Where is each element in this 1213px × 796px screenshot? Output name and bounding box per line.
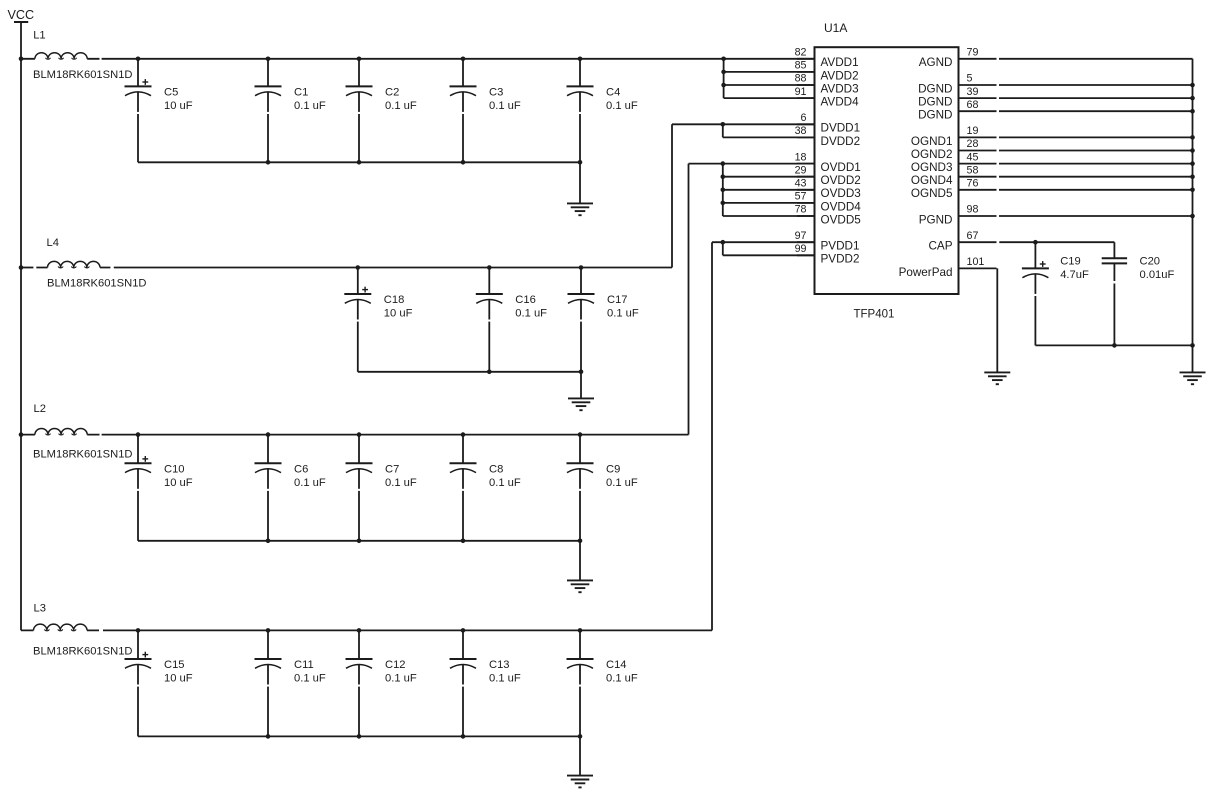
svg-text:97: 97 <box>795 230 807 242</box>
svg-text:43: 43 <box>795 178 807 190</box>
wire GND pin row 7 to rail <box>999 150 1193 152</box>
label C12 0.1 uF <box>385 659 417 685</box>
capacitor C8 <box>450 435 477 541</box>
wire to OVDD pin row 11 <box>723 202 815 204</box>
capacitor C15 <box>125 630 152 736</box>
pin 5 DGND <box>918 73 996 96</box>
svg-text:0.01uF: 0.01uF <box>1140 269 1175 281</box>
wire CAP pin net <box>999 241 1114 243</box>
svg-text:58: 58 <box>967 164 979 176</box>
svg-text:AVDD4: AVDD4 <box>821 96 860 109</box>
wire L2 bank ground bus <box>138 540 580 542</box>
op-amp/IC U1A TFP401 body <box>815 47 959 294</box>
svg-text:C1: C1 <box>294 86 308 98</box>
svg-text:L1: L1 <box>33 29 45 41</box>
svg-text:C17: C17 <box>607 294 628 306</box>
junction ground rail <box>1190 109 1195 114</box>
svg-text:C16: C16 <box>515 294 536 306</box>
junction OVDD branch <box>721 174 726 179</box>
svg-text:BLM18RK601SN1D: BLM18RK601SN1D <box>33 69 133 81</box>
junction node C12 bottom <box>357 734 362 739</box>
pin 67 CAP <box>928 230 996 253</box>
junction ground rail <box>1190 188 1195 193</box>
label C2 0.1 uF <box>385 86 417 112</box>
junction PVDD branch <box>721 240 726 245</box>
svg-text:0.1 uF: 0.1 uF <box>385 673 417 685</box>
capacitor C18 <box>344 268 371 372</box>
junction node C18 top <box>356 265 361 270</box>
wire CAP net ground bus <box>1035 344 1192 346</box>
junction on VCC rail <box>19 57 24 62</box>
svg-text:101: 101 <box>967 256 985 268</box>
svg-text:DGND: DGND <box>918 96 952 109</box>
junction node C17 top <box>579 265 584 270</box>
svg-text:DVDD2: DVDD2 <box>821 135 861 148</box>
svg-text:OVDD3: OVDD3 <box>821 187 861 200</box>
svg-text:10 uF: 10 uF <box>164 100 193 112</box>
capacitor C13 <box>450 630 477 736</box>
svg-text:C3: C3 <box>489 86 503 98</box>
pin 18 OVDD1 <box>795 151 861 174</box>
ground L4 bank <box>568 372 594 410</box>
svg-text:DGND: DGND <box>918 82 952 95</box>
wire PowerPad to ground <box>996 268 998 372</box>
svg-text:67: 67 <box>967 230 979 242</box>
wire to OVDD1 pin <box>689 163 815 165</box>
label C16 0.1 uF <box>515 294 547 320</box>
inductor L4 <box>47 237 101 270</box>
wire to AVDD3 pin <box>724 84 815 86</box>
svg-text:PVDD1: PVDD1 <box>821 240 860 253</box>
wire OVDD riser <box>688 164 690 435</box>
junction ground rail <box>1190 148 1195 153</box>
label C11 0.1 uF <box>294 659 326 685</box>
svg-text:OVDD2: OVDD2 <box>821 174 861 187</box>
wire C20 drop <box>1113 242 1115 258</box>
svg-text:C8: C8 <box>489 463 503 475</box>
label C15 10 uF <box>164 659 193 685</box>
pin 19 OGND1 <box>911 125 997 148</box>
wire to OVDD pin row 12 <box>723 215 815 217</box>
junction node C16 top <box>487 265 492 270</box>
svg-text:C12: C12 <box>385 659 406 671</box>
pin 98 PGND <box>919 204 997 227</box>
junction AVDD branch <box>721 83 726 88</box>
pin 82 AVDD1 <box>795 47 859 70</box>
junction node C9 top <box>578 432 583 437</box>
junction node C17 bottom <box>579 370 584 375</box>
label C18 10 uF <box>384 294 413 320</box>
svg-text:10 uF: 10 uF <box>164 673 193 685</box>
svg-text:38: 38 <box>795 125 807 137</box>
junction node C14 bottom <box>578 734 583 739</box>
junction OVDD branch <box>721 201 726 206</box>
pin 76 OGND5 <box>911 178 997 201</box>
label C3 0.1 uF <box>489 86 521 112</box>
capacitor C11 <box>255 630 282 736</box>
wire to OVDD pin row 9 <box>723 176 815 178</box>
wire L2 rail y=435 <box>21 434 100 436</box>
wire L3 bank ground bus <box>138 735 580 737</box>
junction node C5 top <box>136 57 141 62</box>
wire to DVDD1 pin <box>672 123 815 125</box>
svg-text:C5: C5 <box>164 86 178 98</box>
wire rail to ground symbol <box>1192 345 1194 372</box>
junction node C1 top <box>266 57 271 62</box>
svg-text:0.1 uF: 0.1 uF <box>294 100 326 112</box>
svg-text:4.7uF: 4.7uF <box>1060 269 1089 281</box>
svg-text:L2: L2 <box>34 403 46 415</box>
capacitor C17 <box>568 268 595 372</box>
wire GND pin row 4 to rail <box>999 110 1193 112</box>
svg-text:VCC: VCC <box>8 8 35 22</box>
svg-text:C7: C7 <box>385 463 399 475</box>
svg-text:68: 68 <box>967 99 979 111</box>
pin 91 AVDD4 <box>795 86 859 109</box>
svg-text:0.1 uF: 0.1 uF <box>385 477 417 489</box>
svg-text:29: 29 <box>795 164 807 176</box>
wire L1 rail y=59 <box>21 58 100 60</box>
svg-text:C11: C11 <box>294 659 314 671</box>
junction node C11 bottom <box>266 734 271 739</box>
pin 85 AVDD2 <box>795 60 859 83</box>
ground PowerPad <box>984 371 1010 373</box>
svg-text:88: 88 <box>795 73 807 85</box>
svg-text:78: 78 <box>795 204 807 216</box>
svg-text:0.1 uF: 0.1 uF <box>385 100 417 112</box>
wire to AVDD4 pin <box>724 97 815 99</box>
label C14 0.1 uF <box>606 659 638 685</box>
svg-text:OGND5: OGND5 <box>911 187 953 200</box>
label C10 10 uF <box>164 463 193 489</box>
label C5 10 uF <box>164 86 193 112</box>
junction on VCC rail <box>19 432 24 437</box>
svg-text:C4: C4 <box>606 86 620 98</box>
svg-text:AVDD2: AVDD2 <box>821 69 859 82</box>
junction AVDD branch <box>721 57 726 62</box>
svg-text:99: 99 <box>795 243 807 255</box>
junction node C15 top <box>136 628 141 633</box>
ground L3 bank <box>567 736 593 787</box>
pin 88 AVDD3 <box>795 73 859 96</box>
wire GND pin row 2 to rail <box>999 84 1193 86</box>
pin 79 AGND <box>919 47 997 70</box>
wire L4 bank ground bus <box>358 371 581 373</box>
pin 28 OGND2 <box>911 138 997 161</box>
svg-text:AVDD3: AVDD3 <box>821 82 859 95</box>
capacitor C2 <box>346 59 373 163</box>
pin 101 PowerPad <box>899 256 997 279</box>
junction ground rail <box>1190 161 1195 166</box>
capacitor C5 <box>125 59 152 163</box>
wire GND pin row 12 to rail <box>999 215 1193 217</box>
pin 29 OVDD2 <box>795 164 861 187</box>
pin 45 OGND3 <box>911 151 997 174</box>
wire GND pin row 3 to rail <box>999 97 1193 99</box>
svg-text:C14: C14 <box>606 659 627 671</box>
pin 68 DGND <box>918 99 996 122</box>
junction OVDD branch <box>721 161 726 166</box>
inductor L3 <box>34 603 88 633</box>
pin 99 PVDD2 <box>795 243 860 266</box>
svg-text:L4: L4 <box>47 237 59 249</box>
wire PVDD riser <box>711 242 713 630</box>
svg-text:10 uF: 10 uF <box>164 477 193 489</box>
capacitor C19 <box>1022 242 1049 345</box>
wire to AVDD2 pin <box>724 71 815 73</box>
junction node C16 bottom <box>487 370 492 375</box>
svg-text:OVDD1: OVDD1 <box>821 161 861 174</box>
wire GND pin row 6 to rail <box>999 136 1193 138</box>
svg-text:0.1 uF: 0.1 uF <box>606 673 638 685</box>
ground L1 bank <box>567 162 593 215</box>
wire AGND to ground rail <box>999 58 1193 60</box>
svg-text:C6: C6 <box>294 463 308 475</box>
svg-text:C13: C13 <box>489 659 510 671</box>
inductor L2 <box>34 403 88 437</box>
wire to OVDD pin row 10 <box>723 189 815 191</box>
junction node C8 top <box>461 432 466 437</box>
svg-text:85: 85 <box>795 60 807 72</box>
junction ground rail <box>1190 135 1195 140</box>
label C7 0.1 uF <box>385 463 417 489</box>
junction node C2 bottom <box>357 160 362 165</box>
junction node C7 bottom <box>357 539 362 544</box>
svg-text:C2: C2 <box>385 86 399 98</box>
junction node C13 bottom <box>461 734 466 739</box>
label C1 0.1 uF <box>294 86 326 112</box>
svg-text:AVDD1: AVDD1 <box>821 56 859 69</box>
capacitor C3 <box>450 59 477 163</box>
svg-text:28: 28 <box>967 138 979 150</box>
svg-text:79: 79 <box>967 47 979 59</box>
capacitor C7 <box>346 435 373 541</box>
wire right ground rail vertical <box>1192 59 1194 346</box>
junction node C3 bottom <box>461 160 466 165</box>
svg-text:0.1 uF: 0.1 uF <box>606 477 638 489</box>
junction node C6 bottom <box>266 539 271 544</box>
svg-text:0.1 uF: 0.1 uF <box>489 477 521 489</box>
junction ground rail <box>1190 214 1195 219</box>
junction OVDD branch <box>721 188 726 193</box>
svg-text:L3: L3 <box>34 603 46 615</box>
label C13 0.1 uF <box>489 659 521 685</box>
svg-text:45: 45 <box>967 151 979 163</box>
svg-text:0.1 uF: 0.1 uF <box>294 477 326 489</box>
wire DVDD riser <box>671 124 673 267</box>
wire AVDD branch vertical <box>723 59 725 98</box>
junction CAP net at C19 <box>1033 240 1038 245</box>
svg-text:DGND: DGND <box>918 109 952 122</box>
wire PVDD branch vertical <box>722 242 724 255</box>
svg-text:OGND2: OGND2 <box>911 148 953 161</box>
svg-text:OVDD4: OVDD4 <box>821 200 862 213</box>
junction node C2 top <box>357 57 362 62</box>
svg-text:0.1 uF: 0.1 uF <box>294 673 326 685</box>
capacitor C14 <box>567 630 594 736</box>
junction node C13 top <box>461 628 466 633</box>
capacitor C9 <box>567 435 594 541</box>
junction ground rail <box>1190 83 1195 88</box>
svg-text:91: 91 <box>795 86 807 98</box>
junction DVDD branch <box>721 122 726 127</box>
pin 43 OVDD3 <box>795 178 861 201</box>
wire L4 rail y=268 <box>21 267 33 269</box>
svg-text:6: 6 <box>801 112 807 124</box>
svg-text:0.1 uF: 0.1 uF <box>515 308 547 320</box>
pin 39 DGND <box>918 86 996 109</box>
svg-text:C15: C15 <box>164 659 185 671</box>
svg-text:PowerPad: PowerPad <box>899 266 953 279</box>
pin 38 DVDD2 <box>795 125 861 148</box>
junction node C7 top <box>357 432 362 437</box>
junction node C9 bottom <box>578 539 583 544</box>
wire OVDD branch vertical <box>722 164 724 216</box>
pin 6 DVDD1 <box>797 112 860 135</box>
svg-text:0.1 uF: 0.1 uF <box>489 673 521 685</box>
junction node C4 bottom <box>578 160 583 165</box>
svg-text:OGND4: OGND4 <box>911 174 953 187</box>
svg-text:18: 18 <box>795 151 807 163</box>
svg-text:39: 39 <box>967 86 979 98</box>
svg-text:0.1 uF: 0.1 uF <box>489 100 521 112</box>
label C8 0.1 uF <box>489 463 521 489</box>
capacitor C10 <box>125 435 152 541</box>
svg-text:BLM18RK601SN1D: BLM18RK601SN1D <box>47 277 147 289</box>
junction node C1 bottom <box>266 160 271 165</box>
svg-text:57: 57 <box>795 191 807 203</box>
wire L3 rail y=630 <box>21 629 99 631</box>
svg-text:OGND3: OGND3 <box>911 161 953 174</box>
wire GND pin row 8 to rail <box>999 163 1193 165</box>
svg-text:82: 82 <box>795 47 807 59</box>
pin 97 PVDD1 <box>795 230 860 253</box>
svg-text:98: 98 <box>967 204 979 216</box>
svg-text:U1A: U1A <box>824 21 847 35</box>
svg-text:76: 76 <box>967 178 979 190</box>
svg-text:TFP401: TFP401 <box>854 308 895 320</box>
junction node C10 top <box>136 432 141 437</box>
svg-text:C9: C9 <box>606 463 620 475</box>
capacitor C4 <box>567 59 594 163</box>
svg-text:19: 19 <box>967 125 979 137</box>
wire GND pin row 10 to rail <box>999 189 1193 191</box>
wire L1 bank ground bus <box>138 161 580 163</box>
junction node C6 top <box>266 432 271 437</box>
junction ground rail <box>1190 96 1195 101</box>
label C19 4.7uF <box>1060 256 1089 282</box>
junction AVDD branch <box>721 70 726 75</box>
ground L2 bank <box>567 541 593 592</box>
capacitor C16 <box>476 268 503 372</box>
junction C20 bottom <box>1112 343 1117 348</box>
junction ground rail <box>1190 174 1195 179</box>
svg-text:C19: C19 <box>1060 256 1081 268</box>
junction node C8 bottom <box>461 539 466 544</box>
pin 58 OGND4 <box>911 164 997 187</box>
svg-text:0.1 uF: 0.1 uF <box>607 308 639 320</box>
junction node C3 top <box>461 57 466 62</box>
svg-text:C20: C20 <box>1140 256 1161 268</box>
wire to PVDD2 pin <box>723 254 815 256</box>
svg-text:DVDD1: DVDD1 <box>821 122 861 135</box>
power symbol VCC <box>8 8 35 22</box>
svg-text:BLM18RK601SN1D: BLM18RK601SN1D <box>33 646 133 658</box>
ground right rail <box>1180 371 1206 373</box>
wire to PVDD1 pin <box>712 241 815 243</box>
junction on VCC rail <box>19 265 24 270</box>
label C20 0.01uF <box>1140 256 1175 282</box>
junction node C14 top <box>578 628 583 633</box>
svg-text:PGND: PGND <box>919 213 953 226</box>
svg-text:5: 5 <box>967 73 973 85</box>
pin 78 OVDD5 <box>795 204 862 227</box>
svg-text:0.1 uF: 0.1 uF <box>606 100 638 112</box>
wire GND pin row 9 to rail <box>999 176 1193 178</box>
svg-text:C10: C10 <box>164 463 185 475</box>
svg-text:10 uF: 10 uF <box>384 308 413 320</box>
svg-text:CAP: CAP <box>928 240 952 253</box>
capacitor C20 <box>1102 258 1127 345</box>
svg-text:PVDD2: PVDD2 <box>821 253 860 266</box>
svg-text:OGND1: OGND1 <box>911 135 953 148</box>
wire to DVDD2 pin <box>723 136 815 138</box>
wire DVDD branch vertical <box>722 124 724 137</box>
svg-text:AGND: AGND <box>919 56 953 69</box>
junction ground rail bottom <box>1190 343 1195 348</box>
junction node C4 top <box>578 57 583 62</box>
capacitor C1 <box>255 59 282 163</box>
label C9 0.1 uF <box>606 463 638 489</box>
junction node C12 top <box>357 628 362 633</box>
inductor L1 <box>33 29 87 61</box>
capacitor C6 <box>255 435 282 541</box>
label C4 0.1 uF <box>606 86 638 112</box>
pin 57 OVDD4 <box>795 191 862 214</box>
svg-text:C18: C18 <box>384 294 405 306</box>
svg-text:OVDD5: OVDD5 <box>821 213 862 226</box>
wire VCC rail (left vertical) <box>20 23 22 630</box>
capacitor C12 <box>346 630 373 736</box>
svg-text:BLM18RK601SN1D: BLM18RK601SN1D <box>33 449 133 461</box>
label C6 0.1 uF <box>294 463 326 489</box>
label C17 0.1 uF <box>607 294 639 320</box>
junction node C11 top <box>266 628 271 633</box>
